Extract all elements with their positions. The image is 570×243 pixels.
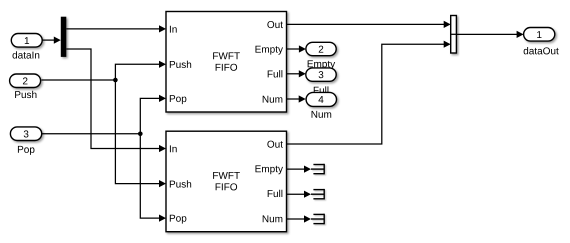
- junction Push: [113, 78, 118, 83]
- wire demux out2 to FIFO2 In: [66, 49, 166, 152]
- junction Pop: [138, 132, 143, 137]
- outport 4 Num: [306, 92, 336, 106]
- wire junction to FIFO2 Push: [115, 80, 166, 187]
- label Push: [15, 91, 36, 98]
- outport 1 dataOut: [524, 28, 555, 42]
- wire FIFO2 Full to terminator: [287, 191, 312, 198]
- FIFO1 labels: [170, 21, 283, 104]
- concat block: [451, 16, 457, 54]
- label dataOut: [524, 47, 559, 54]
- label Pop: [18, 146, 35, 155]
- wire FIFO2 Out to concat: [287, 41, 451, 144]
- wire FIFO1 Out to concat: [287, 21, 451, 28]
- terminator Num: [311, 214, 324, 225]
- wire FIFO1 Num to outport 4: [287, 95, 306, 102]
- wire FIFO2 Num to terminator: [287, 215, 312, 222]
- wire Pop to junction: [42, 133, 141, 135]
- outport 3 Full: [306, 68, 336, 81]
- FIFO block 1: [166, 12, 287, 113]
- label dataIn: [13, 51, 40, 58]
- label Num: [312, 111, 332, 118]
- wire FIFO1 Empty to outport 2: [287, 45, 306, 52]
- wire Push to junction: [42, 79, 116, 81]
- wire junction to FIFO2 Pop: [140, 134, 166, 222]
- wire FIFO1 Full to outport 3: [287, 70, 306, 77]
- wire demux out1 to FIFO1 In: [66, 25, 166, 32]
- wire junction to FIFO1 Push: [115, 61, 166, 80]
- demux bar: [61, 17, 67, 57]
- terminator Empty: [311, 164, 324, 175]
- wire dataIn to demux: [42, 37, 61, 44]
- wire concat to dataOut: [456, 31, 523, 38]
- wire junction to FIFO1 Pop: [140, 95, 166, 134]
- FIFO block 2: [166, 131, 287, 232]
- outport 2 Empty: [306, 42, 336, 55]
- label Empty (behind outport 3): [308, 60, 336, 69]
- wire FIFO2 Empty to terminator: [287, 166, 312, 173]
- label Full (behind outport 4): [314, 86, 329, 93]
- inport 3 Pop: [10, 127, 41, 141]
- inport 1 dataIn: [11, 34, 42, 48]
- inport 2 Push: [10, 74, 41, 88]
- FIFO2 labels: [170, 141, 283, 224]
- terminator Full: [311, 189, 324, 200]
